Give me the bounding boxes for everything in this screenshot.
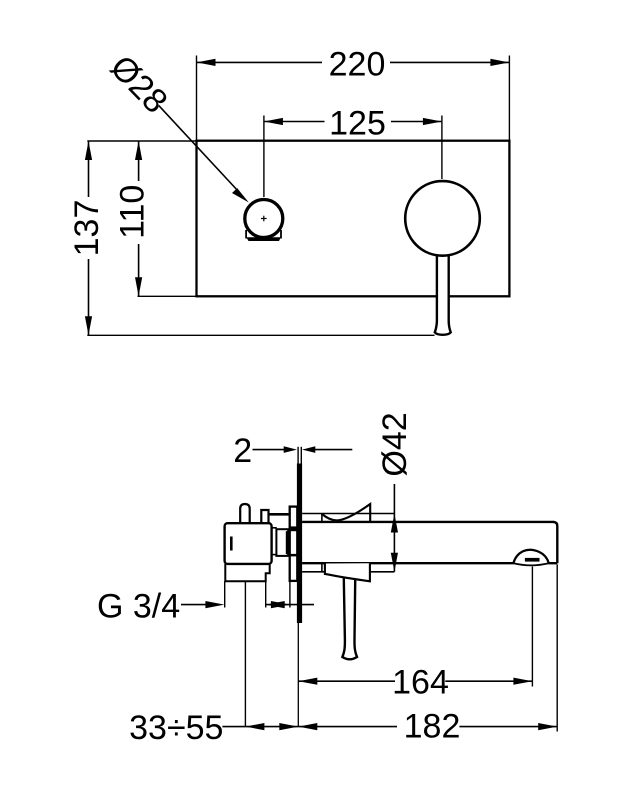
wall plate side (thin above): [298, 447, 301, 465]
body extension lines: [225, 581, 290, 727]
spout tube side: [302, 522, 557, 563]
inlet pipe 1: [240, 504, 250, 523]
rear top line: [269, 513, 291, 516]
dimension 220: [197, 46, 510, 141]
wall plate side (solid bar): [297, 464, 302, 624]
inlet pipe 2: [261, 510, 268, 523]
spout escutcheon front (circle): [405, 181, 480, 256]
dimension 182: [298, 565, 557, 746]
dimension 110: [114, 141, 197, 296]
dimension Ø42: [376, 412, 414, 571]
dimension body-to-flange: [266, 601, 314, 608]
dimension 164: [298, 567, 532, 702]
valve body side: [225, 523, 272, 564]
mounting plate outline: [197, 141, 510, 297]
handle knob front: [245, 200, 283, 242]
svg-text:164: 164: [392, 663, 449, 701]
svg-text:137: 137: [68, 200, 106, 257]
dimension 125: [264, 105, 442, 198]
svg-text:220: 220: [329, 46, 386, 84]
dimension 2 (plate thickness): [233, 432, 352, 470]
body lower section: [225, 564, 269, 581]
svg-text:G 3/4: G 3/4: [97, 588, 180, 626]
handle stem side: [342, 573, 357, 659]
svg-text:33÷55: 33÷55: [129, 709, 223, 747]
svg-text:182: 182: [404, 708, 461, 746]
dimension 137: [68, 141, 435, 335]
svg-text:Ø42: Ø42: [376, 412, 414, 476]
escutcheon ring side: [302, 514, 394, 572]
cartridge neck B: [276, 529, 288, 556]
cartridge neck A: [272, 528, 277, 555]
outlet dome: [513, 550, 549, 566]
dark joint: [286, 531, 291, 554]
svg-text:125: 125: [329, 105, 386, 143]
wall plate extension hairline: [297, 623, 299, 727]
bottom wave cover: [325, 563, 370, 581]
spout escutcheon front (tube): [435, 250, 451, 335]
mounting flange: [289, 507, 298, 581]
svg-text:2: 2: [233, 432, 252, 470]
svg-text:110: 110: [114, 185, 152, 239]
top wave cover: [322, 504, 370, 522]
dimension 33÷55: [129, 709, 298, 747]
label Ø28 with leader: [103, 48, 249, 202]
label G 3/4 with leader: [97, 588, 224, 626]
